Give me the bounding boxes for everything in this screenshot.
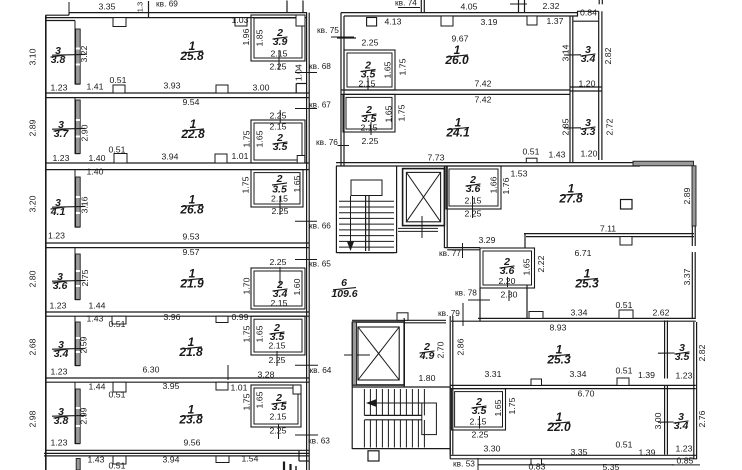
svg-text:2.25: 2.25 <box>472 429 489 439</box>
svg-text:3.31: 3.31 <box>485 369 502 379</box>
room 2/3.6 label upper <box>466 174 481 195</box>
svg-text:1.23: 1.23 <box>50 300 67 310</box>
svg-text:109.6: 109.6 <box>331 288 357 300</box>
right wall below 27.8 <box>691 226 693 318</box>
svg-text:3.3: 3.3 <box>581 126 596 138</box>
bath 2/3.5 box row B <box>251 120 305 163</box>
svg-text:3.37: 3.37 <box>682 268 692 285</box>
svg-text:2.89: 2.89 <box>27 119 37 136</box>
bath 2/3.4 box row D <box>251 268 305 309</box>
elevator shaft upper <box>403 169 445 226</box>
top-right step wall <box>577 10 599 12</box>
grey wall left of elevator <box>352 322 356 385</box>
svg-text:2.85: 2.85 <box>560 118 570 135</box>
svg-text:23.8: 23.8 <box>178 413 203 427</box>
svg-text:2.15: 2.15 <box>270 121 287 131</box>
vent notch below 27.8 wall <box>620 237 632 245</box>
svg-text:0.83: 0.83 <box>529 461 546 470</box>
svg-text:7.11: 7.11 <box>600 223 616 233</box>
room 3/3.4 label top right <box>581 44 596 65</box>
vent notches below bottom wall <box>113 456 126 464</box>
stair treads upper <box>339 200 394 202</box>
svg-text:0.51: 0.51 <box>110 75 127 85</box>
svg-text:26.0: 26.0 <box>444 53 469 67</box>
svg-text:1.40: 1.40 <box>87 166 104 176</box>
svg-text:1.03: 1.03 <box>232 15 249 25</box>
svg-text:6.71: 6.71 <box>575 248 592 258</box>
svg-text:2.86: 2.86 <box>455 338 465 355</box>
dim tick row A box <box>278 50 280 70</box>
svg-text:0.99: 0.99 <box>232 312 249 322</box>
right outer wall lower <box>693 322 695 459</box>
svg-text:1.23: 1.23 <box>53 153 70 163</box>
svg-text:кв. 69: кв. 69 <box>156 0 178 9</box>
dim tick 3.6u box <box>472 196 474 218</box>
svg-text:3.14: 3.14 <box>560 44 570 61</box>
room 1/25.3 lower label <box>546 343 571 367</box>
top wall of right block <box>341 12 578 14</box>
main wall above stair row <box>336 162 633 164</box>
bath 2/3.5 box row E <box>251 316 305 355</box>
svg-text:1.43: 1.43 <box>88 454 105 464</box>
svg-text:9.56: 9.56 <box>184 437 201 447</box>
tick at top-left step <box>68 2 70 13</box>
svg-text:1.40: 1.40 <box>89 153 106 163</box>
left wall of lower rooms block <box>449 316 451 455</box>
svg-text:27.8: 27.8 <box>558 192 583 206</box>
svg-text:3.00: 3.00 <box>653 412 663 429</box>
svg-text:24.1: 24.1 <box>445 126 470 140</box>
svg-text:1.75: 1.75 <box>396 104 406 121</box>
corridor wall right of elevator <box>443 166 445 248</box>
room 3/3.8 label row A <box>51 45 66 66</box>
svg-text:1.76: 1.76 <box>501 177 511 194</box>
svg-text:3.35: 3.35 <box>99 1 116 11</box>
left outer wall <box>45 15 47 470</box>
room 1/24.1 label <box>445 116 470 140</box>
svg-text:1.80: 1.80 <box>419 373 436 383</box>
svg-text:1.65: 1.65 <box>292 175 302 192</box>
svg-text:25.3: 25.3 <box>546 353 571 367</box>
vent notches 25.3 divider <box>529 312 543 319</box>
room 3/3.5 right label <box>675 342 690 363</box>
dim tick row D box <box>279 267 281 285</box>
wall between rooms A and B <box>46 92 309 94</box>
svg-text:2.25: 2.25 <box>465 208 482 218</box>
room 2/3.9 label <box>273 27 288 48</box>
wall between rooms B and C <box>46 162 309 164</box>
svg-text:2.75: 2.75 <box>80 269 90 286</box>
room 1/22.0 label <box>546 410 571 434</box>
bath 2/3.5 box row C <box>251 170 303 207</box>
svg-text:2.25: 2.25 <box>270 61 287 71</box>
left wall of right block <box>340 13 342 166</box>
dim tick rb upper box <box>367 78 369 90</box>
bath 2/3.6 box upper <box>446 166 501 209</box>
room 1/21.8 label <box>178 335 203 359</box>
tick kv53 <box>477 458 479 470</box>
bath 2/3.5 box right block lower <box>343 94 395 132</box>
svg-text:кв. 68: кв. 68 <box>309 61 331 71</box>
svg-text:9.54: 9.54 <box>183 97 200 107</box>
room 2/3.5 label bottom <box>472 396 487 417</box>
grey load wall below bottom <box>76 459 80 470</box>
grey right wall of 27.8 <box>692 166 696 226</box>
svg-text:2.22: 2.22 <box>536 255 546 272</box>
svg-text:0.51: 0.51 <box>616 300 633 310</box>
svg-text:кв. 65: кв. 65 <box>309 259 331 269</box>
svg-text:3.9: 3.9 <box>273 36 288 48</box>
right wall of top-right rooms <box>598 11 600 160</box>
vent notch corridor wall <box>397 313 408 321</box>
elevator X lower <box>358 327 399 380</box>
svg-text:3.5: 3.5 <box>675 351 690 363</box>
svg-text:3.93: 3.93 <box>164 80 181 90</box>
svg-text:кв. 63: кв. 63 <box>308 436 330 446</box>
svg-text:6.30: 6.30 <box>143 364 160 374</box>
stair down arrow upper <box>350 196 352 245</box>
svg-text:1.70: 1.70 <box>241 277 251 294</box>
svg-text:4.9: 4.9 <box>419 350 435 362</box>
svg-text:1.66: 1.66 <box>488 176 498 193</box>
svg-text:3.28: 3.28 <box>258 369 275 379</box>
room 1/25.8 label <box>179 39 204 63</box>
room 1/27.8 label <box>558 182 583 206</box>
wall bottom of room F <box>46 449 309 451</box>
clipped wall stub bottom <box>283 462 285 470</box>
svg-text:3.00: 3.00 <box>253 82 270 92</box>
svg-text:2.15: 2.15 <box>269 340 286 350</box>
svg-text:2.32: 2.32 <box>543 1 560 11</box>
svg-text:3.10: 3.10 <box>27 48 37 65</box>
bottom-right corner step of left block <box>298 451 300 461</box>
stair landing lower right <box>422 403 437 435</box>
svg-text:2.25: 2.25 <box>270 110 287 120</box>
svg-text:4.05: 4.05 <box>461 1 478 11</box>
svg-text:1.75: 1.75 <box>507 397 517 414</box>
room 1/26.8 label <box>179 193 204 217</box>
tick below elevator <box>421 216 423 238</box>
svg-text:1.60: 1.60 <box>292 278 302 295</box>
stair mid stringer lower <box>364 414 421 416</box>
stair treads lower upper flight <box>363 389 365 415</box>
svg-text:2.98: 2.98 <box>27 410 37 427</box>
svg-text:2.90: 2.90 <box>79 124 89 141</box>
top wall of room 3.4 <box>573 20 598 22</box>
svg-text:1.39: 1.39 <box>638 370 655 380</box>
svg-text:0.51: 0.51 <box>109 389 126 399</box>
svg-text:1.43: 1.43 <box>549 149 566 159</box>
svg-text:кв. 79: кв. 79 <box>438 308 460 318</box>
svg-text:3.34: 3.34 <box>571 307 588 317</box>
elevator X upper <box>406 172 440 221</box>
chimney square top <box>367 18 377 27</box>
svg-text:9.67: 9.67 <box>452 33 469 43</box>
svg-text:1.23: 1.23 <box>51 82 68 92</box>
svg-text:1.53: 1.53 <box>511 168 528 178</box>
svg-text:2.15: 2.15 <box>359 78 376 88</box>
grey load wall row D <box>76 254 81 300</box>
dim tick rb lower box <box>370 122 372 135</box>
svg-text:1.04: 1.04 <box>294 64 304 81</box>
svg-text:26.8: 26.8 <box>179 203 204 217</box>
svg-text:1.65: 1.65 <box>383 105 393 122</box>
wall right of 3.6 box down <box>526 285 528 318</box>
svg-text:1.85: 1.85 <box>254 29 264 46</box>
small square in 27.8 <box>621 200 633 210</box>
wall between rooms C and D <box>46 242 309 244</box>
room 2/3.5 label row F <box>272 392 287 413</box>
grey load wall row E <box>76 322 81 366</box>
svg-text:1.23: 1.23 <box>48 230 65 240</box>
svg-text:1.44: 1.44 <box>89 381 106 391</box>
bath 2/3.6 box lower <box>480 248 535 288</box>
svg-text:1.41: 1.41 <box>87 81 104 91</box>
lower parallel edge line <box>478 464 674 466</box>
vent notches top wall room E <box>112 316 126 324</box>
svg-text:кв. 66: кв. 66 <box>309 221 331 231</box>
elevator ledge upper <box>398 227 438 229</box>
svg-text:7.42: 7.42 <box>475 78 492 88</box>
room 3/3.7 label row B <box>54 119 70 140</box>
elevator shaft lower <box>353 322 404 385</box>
svg-text:0.51: 0.51 <box>616 365 633 375</box>
svg-text:3.6: 3.6 <box>466 183 481 195</box>
room 2/3.5 label row C <box>272 173 287 196</box>
svg-text:9.53: 9.53 <box>183 231 200 241</box>
svg-text:4.13: 4.13 <box>385 16 402 26</box>
svg-text:22.8: 22.8 <box>180 127 205 141</box>
wall between 26.0 and 3.4 col <box>569 16 571 163</box>
room 1/23.8 label <box>178 403 203 427</box>
svg-text:2.15: 2.15 <box>271 298 288 308</box>
jog wall at left end of 27.8 bottom <box>524 234 526 248</box>
svg-text:1.44: 1.44 <box>89 300 106 310</box>
room 1/21.9 label <box>179 267 204 291</box>
tick at top wall <box>148 1 150 17</box>
grey wall top of 27.8 right part <box>633 161 694 166</box>
svg-text:0.51: 0.51 <box>109 460 126 470</box>
wall between rooms D and E <box>46 311 309 313</box>
svg-text:2.80: 2.80 <box>27 270 37 287</box>
svg-text:3.4: 3.4 <box>581 53 596 65</box>
svg-text:2.72: 2.72 <box>604 118 614 135</box>
svg-text:1.23: 1.23 <box>676 443 693 453</box>
svg-text:8.93: 8.93 <box>550 322 567 332</box>
svg-text:2.82: 2.82 <box>697 344 707 361</box>
svg-text:3.16: 3.16 <box>79 196 89 213</box>
svg-text:9.57: 9.57 <box>183 247 200 257</box>
room 1/22.8 label <box>180 117 205 141</box>
wall between 25.3l and 22.0 <box>450 384 696 386</box>
stair landing upper <box>351 180 382 196</box>
room 3/3.4 right label <box>674 411 689 432</box>
svg-text:2.59: 2.59 <box>78 336 88 353</box>
svg-text:3.94: 3.94 <box>162 151 179 161</box>
svg-text:1.01: 1.01 <box>231 382 248 392</box>
svg-text:5.35: 5.35 <box>603 462 620 470</box>
room 3/3.3 label <box>581 117 596 138</box>
svg-text:кв. 77: кв. 77 <box>439 248 461 258</box>
grey load wall row A <box>76 29 81 84</box>
wall left of 4.9/elevator lower <box>403 318 405 387</box>
stair arrow lower <box>372 402 434 404</box>
svg-text:2.62: 2.62 <box>653 307 670 317</box>
stairwell lower enclosure <box>352 386 450 388</box>
svg-text:1.43: 1.43 <box>87 313 104 323</box>
wall between 25.3 rooms <box>478 317 696 319</box>
svg-text:3.4: 3.4 <box>674 420 689 432</box>
svg-text:кв. 76: кв. 76 <box>316 137 338 147</box>
bottom wall of 27.8 <box>524 233 694 235</box>
top ticks right corner <box>598 0 600 4</box>
svg-text:0.84: 0.84 <box>580 7 597 17</box>
svg-text:2.15: 2.15 <box>470 416 487 426</box>
svg-text:3.29: 3.29 <box>479 235 496 245</box>
svg-text:1.20: 1.20 <box>581 148 598 158</box>
svg-text:2.76: 2.76 <box>697 410 707 427</box>
leader room 3/3.5 lower right <box>658 352 675 354</box>
stairwell upper enclosure <box>335 166 337 253</box>
svg-text:7.42: 7.42 <box>475 94 492 104</box>
svg-text:1.75: 1.75 <box>397 58 407 75</box>
svg-text:0.51: 0.51 <box>616 439 633 449</box>
dim ticks 3.6l box <box>507 277 509 287</box>
svg-text:2.82: 2.82 <box>603 47 613 64</box>
svg-text:0.51: 0.51 <box>109 144 126 154</box>
tick for 2.25 <box>337 37 356 39</box>
corridor area label 6/109.6 <box>331 277 357 300</box>
white tick gaps in grey walls <box>76 48 80 50</box>
svg-text:22.0: 22.0 <box>546 420 571 434</box>
outer wall top of left block <box>69 12 307 14</box>
svg-text:1.65: 1.65 <box>254 391 264 408</box>
bath 2/3.5 box right block upper <box>344 50 395 90</box>
svg-text:7.73: 7.73 <box>428 152 445 162</box>
corner step in 2/3.9 box <box>296 15 305 26</box>
wall between 22.0 and right col <box>664 320 666 454</box>
svg-text:1.01: 1.01 <box>232 151 249 161</box>
bath 2/3.5 box bottom block <box>452 389 506 430</box>
svg-text:2.15: 2.15 <box>361 122 378 132</box>
wall between rooms E and F <box>46 377 309 379</box>
bath 2/3.9 box row A <box>251 15 305 61</box>
stair center stringer upper <box>365 196 367 252</box>
dim tick row C box <box>279 196 281 215</box>
svg-text:3.19: 3.19 <box>481 17 498 27</box>
left rooms partition walls with door gaps <box>74 21 76 85</box>
svg-text:2.15: 2.15 <box>465 195 482 205</box>
room 3/3.8 label row F <box>54 406 69 427</box>
room 2/3.4 label row D <box>273 279 288 300</box>
svg-text:6.70: 6.70 <box>578 388 595 398</box>
tick kv79 <box>462 303 464 326</box>
svg-text:кв. 64: кв. 64 <box>310 365 332 375</box>
grey load wall row C <box>76 177 81 227</box>
svg-text:1.65: 1.65 <box>493 399 503 416</box>
vent notches above 22.0 top wall <box>531 379 542 385</box>
svg-text:1.75: 1.75 <box>241 393 251 410</box>
svg-text:25.8: 25.8 <box>179 49 204 63</box>
svg-text:1.75: 1.75 <box>240 176 250 193</box>
svg-text:1.96: 1.96 <box>241 28 251 45</box>
vent notch above stair-row wall <box>526 158 537 162</box>
room 2/3.5 label rb upper <box>361 59 376 80</box>
svg-text:3.20: 3.20 <box>27 195 37 212</box>
leader room 3/4.1 C <box>52 205 86 208</box>
svg-text:2.68: 2.68 <box>27 338 37 355</box>
svg-text:1.65: 1.65 <box>254 325 264 342</box>
svg-text:3.96: 3.96 <box>164 312 181 322</box>
vent notches top wall right block <box>441 16 453 26</box>
wall between 26.0 and 24.1 <box>341 89 570 91</box>
svg-text:3.95: 3.95 <box>163 381 180 391</box>
leader room 3/3.8 A <box>52 53 86 56</box>
dim tick row B box <box>279 110 281 124</box>
tick left of elevator <box>344 354 370 356</box>
small square below stairs <box>368 451 379 461</box>
svg-text:3.30: 3.30 <box>484 443 501 453</box>
svg-text:кв. 78: кв. 78 <box>455 288 477 298</box>
svg-text:1.37: 1.37 <box>547 16 564 26</box>
svg-text:1.65: 1.65 <box>521 258 531 275</box>
grey load wall row B <box>76 100 81 154</box>
svg-text:3.5: 3.5 <box>472 405 487 417</box>
svg-text:1.23: 1.23 <box>676 370 693 380</box>
corridor wall below elevator <box>444 247 480 249</box>
wall between 3.4 and 3.3 <box>570 86 602 88</box>
room 2/3.6 label lower <box>500 256 515 277</box>
corner step in row F box <box>293 385 301 394</box>
svg-text:1.65: 1.65 <box>382 61 392 78</box>
tick between 6.30 and 3.28 <box>227 365 229 380</box>
svg-text:1.23: 1.23 <box>51 437 68 447</box>
ticks near top right corner of left block <box>286 1 288 13</box>
leader room 3/3.3 <box>564 127 581 129</box>
bottom wall right block <box>450 454 697 456</box>
ticks top right block <box>420 0 422 13</box>
svg-text:1.23: 1.23 <box>51 366 68 376</box>
corner step row B box <box>297 156 305 164</box>
svg-text:2.70: 2.70 <box>435 341 445 358</box>
room 1/26.0 label <box>444 43 469 67</box>
leader room 3/3.8 F <box>52 414 86 417</box>
room 3/4.1 label row C <box>50 197 66 218</box>
svg-text:0.51: 0.51 <box>523 146 540 156</box>
grey load wall row F <box>76 389 81 444</box>
dim tick row F box <box>278 425 280 440</box>
dim tick row E box <box>276 351 278 366</box>
leader room 3/3.4 E <box>52 347 86 350</box>
door gap in right wall <box>692 246 697 252</box>
corner step bottom-right of room 25.8 <box>295 84 297 94</box>
right wall of left block <box>306 13 308 470</box>
dim tick bottom 3.5 box <box>479 416 481 429</box>
svg-text:3.94: 3.94 <box>163 454 180 464</box>
svg-text:кв. 75: кв. 75 <box>317 25 339 35</box>
room 2/3.5 label rb lower <box>362 104 377 125</box>
svg-text:1.75: 1.75 <box>241 325 251 342</box>
svg-text:2.15: 2.15 <box>270 411 287 421</box>
svg-text:0.51: 0.51 <box>109 319 126 329</box>
leader room 3/3.7 B <box>52 127 86 130</box>
room 2/3.5 label row B <box>273 132 288 153</box>
room 2/4.9 label <box>419 341 435 362</box>
svg-text:2.25: 2.25 <box>270 257 287 267</box>
svg-text:21.8: 21.8 <box>178 345 203 359</box>
svg-text:2.89: 2.89 <box>682 187 692 204</box>
vent notches top wall room A <box>113 18 126 27</box>
